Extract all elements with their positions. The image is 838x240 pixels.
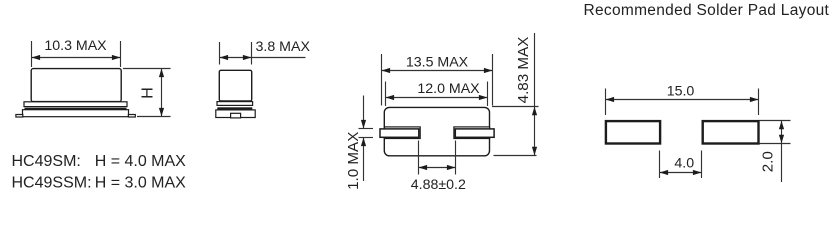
svg-text:3.8 MAX: 3.8 MAX [256, 39, 311, 55]
svg-text:4.0: 4.0 [674, 156, 694, 172]
svg-text:H: H [140, 87, 157, 99]
svg-text:Recommended Solder Pad Layout: Recommended Solder Pad Layout [584, 2, 830, 19]
svg-text:13.5 MAX: 13.5 MAX [406, 55, 469, 71]
svg-text:HC49SM:: HC49SM: [12, 153, 81, 170]
svg-text:HC49SSM:: HC49SSM: [12, 175, 92, 192]
svg-text:2.0: 2.0 [760, 151, 777, 172]
svg-text:4.83 MAX: 4.83 MAX [515, 37, 532, 104]
svg-text:H = 3.0 MAX: H = 3.0 MAX [95, 175, 186, 192]
svg-text:10.3 MAX: 10.3 MAX [44, 38, 107, 54]
svg-text:12.0 MAX: 12.0 MAX [417, 81, 480, 97]
svg-text:4.88±0.2: 4.88±0.2 [411, 177, 466, 193]
svg-text:1.0 MAX: 1.0 MAX [345, 132, 362, 190]
svg-text:H = 4.0 MAX: H = 4.0 MAX [95, 153, 186, 170]
svg-text:15.0: 15.0 [667, 83, 695, 99]
